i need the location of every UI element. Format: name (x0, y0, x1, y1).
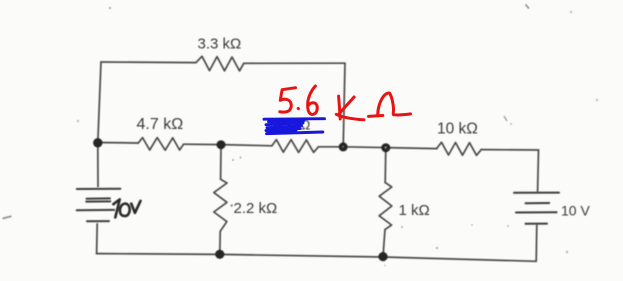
label 1 kOhm (399, 202, 430, 219)
wire right vertical down to battery V2 (537, 150, 540, 192)
svg-text:1 kΩ: 1 kΩ (399, 202, 430, 219)
resistor 4.7 kOhm (138, 138, 184, 151)
annotation red handwritten 5.6 K Ohm (280, 86, 411, 120)
svg-text:4.7 kΩ: 4.7 kΩ (137, 116, 184, 133)
svg-text:10 V: 10 V (561, 203, 590, 219)
node N4 (top of 1k) (381, 143, 390, 152)
wire middle left of R 4.7k (98, 142, 138, 145)
wire battery V2 bottom stub (535, 225, 538, 261)
annotation blue scribble over printed 5.6 k label (264, 119, 325, 134)
label 10 kOhm (437, 121, 478, 138)
label 4.7 kOhm (137, 116, 184, 133)
svg-text:2.2 kΩ: 2.2 kΩ (234, 200, 278, 217)
wire middle between R 5.6k and node N3 (318, 146, 343, 148)
wire between node N3 and node N4 (343, 146, 386, 149)
wire from R 2.2k down to bottom node B1 (219, 231, 221, 254)
svg-text:3.3 kΩ: 3.3 kΩ (198, 36, 242, 53)
label 5.6 kOhm (printed, under scribble) (271, 118, 310, 133)
wire middle right of R 10k (483, 149, 539, 151)
label 2.2 kOhm (234, 200, 278, 217)
label 10 V (right battery) (561, 203, 590, 219)
node N2 (middle junction, top of 2.2k) (217, 140, 226, 149)
handwritten 10V (left battery, pencil) (113, 199, 140, 217)
wire top horizontal right of R 3.3k (244, 62, 345, 64)
node B1 (bottom of 2.2k) (215, 250, 224, 259)
wire from node N1 down to battery V1 (97, 143, 99, 187)
wire middle left of R 10k (386, 148, 437, 149)
wire from node N4 down to R 1k (384, 148, 387, 183)
wire top horizontal left of R 3.3k (101, 61, 196, 64)
resistor 2.2 kOhm (vertical) (214, 179, 227, 231)
wire bottom horizontal (97, 254, 537, 262)
wire battery V1 bottom stub (96, 224, 99, 254)
wire middle between R 4.7k and node N2 (184, 143, 221, 145)
battery V1 (left, 10V) plates (77, 189, 121, 222)
wire from R 1k down to bottom node B2 (383, 230, 385, 257)
resistor 1 kOhm (vertical) (379, 183, 392, 230)
resistor 5.6 kOhm (value scribbled out) (272, 140, 319, 153)
wire top-right vertical (343, 63, 345, 146)
svg-text:10 kΩ: 10 kΩ (437, 121, 478, 138)
wire from node N2 down to R 2.2k (220, 146, 222, 179)
label 3.3 kOhm (198, 36, 242, 53)
node B2 (bottom of 1k) (378, 252, 387, 261)
battery V2 (right, 10 V) plates (514, 193, 559, 224)
node N3 (junction below top loop) (339, 142, 348, 151)
resistor 3.3 kOhm (196, 56, 244, 71)
resistor 10 kOhm (437, 142, 482, 155)
wire middle left of R 5.6k (221, 145, 272, 146)
wire top-left vertical (98, 62, 101, 143)
node N1 (left junction) (93, 138, 102, 147)
